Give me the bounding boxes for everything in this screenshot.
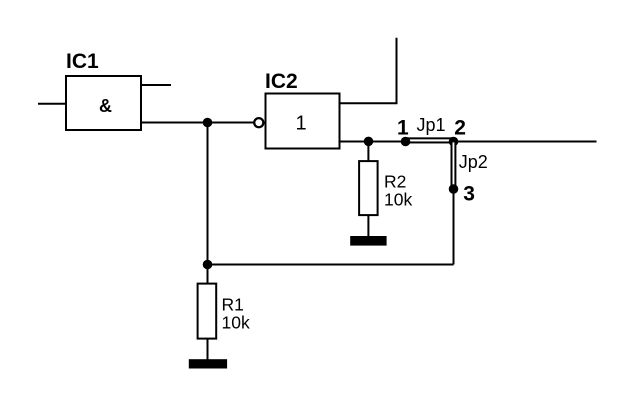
wire bottom horizontal: [208, 264, 454, 266]
ground R2: [350, 236, 386, 246]
IC2 inverter bubble: [254, 118, 263, 127]
svg-text:IC2: IC2: [265, 70, 298, 93]
svg-text:3: 3: [463, 183, 475, 206]
wire R1 top lead: [207, 265, 209, 284]
pin 1 dot: [401, 137, 411, 147]
jumper Jp2 double link: [452, 141, 456, 189]
svg-text:&: &: [99, 96, 112, 116]
svg-text:10k: 10k: [222, 313, 250, 333]
wire R2 bottom lead: [367, 216, 369, 238]
resistor R1: [198, 284, 217, 339]
svg-text:1: 1: [295, 113, 306, 135]
IC1: [66, 76, 141, 130]
svg-text:Jp2: Jp2: [459, 152, 488, 172]
wire IC1 input stub: [38, 103, 65, 105]
IC2: [266, 94, 340, 149]
pin 2 dot: [449, 137, 459, 147]
jumper Jp1 double link: [406, 138, 454, 142]
svg-text:10k: 10k: [384, 190, 412, 210]
pin 3 dot: [449, 184, 459, 194]
wire R1 bottom lead: [207, 339, 209, 360]
wire pin3 down: [453, 189, 455, 265]
svg-text:1: 1: [397, 117, 409, 140]
svg-text:R1: R1: [222, 295, 244, 315]
wire IC2 bottom output to pin1: [341, 141, 407, 143]
node B junction dot: [203, 260, 213, 270]
svg-text:2: 2: [454, 117, 466, 140]
wire IC2 top output: [341, 38, 397, 104]
resistor R2: [359, 161, 378, 215]
ground R1: [189, 359, 227, 368]
wire IC1 output to IC2: [142, 122, 255, 124]
svg-text:R2: R2: [384, 172, 406, 192]
svg-text:Jp1: Jp1: [417, 115, 446, 135]
node A junction dot: [203, 118, 213, 128]
wire IC1 top-right stub: [142, 84, 171, 86]
wire R2 top lead: [367, 142, 369, 162]
svg-text:IC1: IC1: [66, 50, 99, 73]
node R2 tap junction dot: [364, 137, 374, 147]
wire pin2 to right edge: [454, 141, 597, 143]
wire node A vertical down: [207, 123, 209, 265]
